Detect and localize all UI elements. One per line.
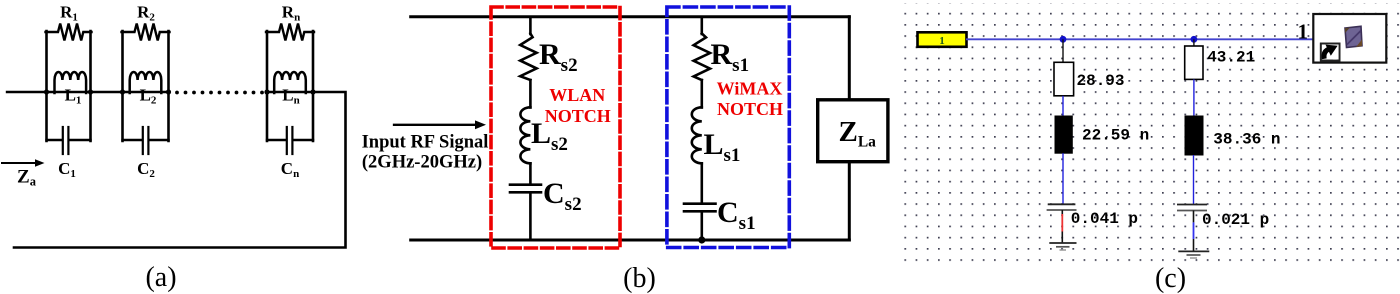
inductor Ls1 (vertical coil) (692, 107, 702, 163)
component icon box (top right) (1313, 14, 1386, 63)
svg-text:1: 1 (1298, 19, 1309, 43)
wire: right vertical from load bottom (848, 162, 851, 240)
node: branch A tap (1060, 36, 1067, 43)
wire: between tank1 and tank2 (91, 91, 123, 93)
resistor 43.21 (white rect) (1185, 46, 1203, 79)
wire: through tank 2 at mid level (123, 91, 169, 93)
wire: dotted continuation between tank2 and tank n (175, 91, 264, 95)
tank 1 left rail (45, 31, 48, 141)
svg-text:(c): (c) (1155, 263, 1186, 294)
node: junction dot tank-n left (264, 89, 269, 94)
capacitor C1 (bottom branch) (47, 127, 91, 154)
wire: right vertical to load top (848, 17, 851, 100)
resistor Rs2 (vertical zigzag) (520, 34, 536, 81)
label Za with arrow (2, 159, 45, 188)
curved-arrow icon (box bottom-left) (1321, 44, 1340, 61)
inductor L2 (middle branch coil) (130, 72, 162, 93)
node: junction dot tank2 right (166, 89, 171, 94)
tank 2 left rail (121, 31, 124, 141)
inductor L1 (middle branch coil) (55, 72, 87, 93)
wire: inductor to capacitor (1062, 153, 1064, 204)
svg-text:(a): (a) (145, 262, 176, 293)
svg-text:(b): (b) (623, 263, 656, 294)
svg-text:WLAN: WLAN (549, 85, 605, 105)
resistor 28.93 (white rect) (1054, 62, 1074, 96)
svg-text:NOTCH: NOTCH (545, 106, 611, 126)
resistor R2 (top branch zigzag) (122, 24, 170, 41)
wire: branch Rs2-Ls2-Cs2 top lead (529, 17, 532, 34)
wire: branch Rs1-Ls1-Cs1 top lead (700, 17, 703, 34)
wire: top bus (411, 15, 850, 18)
input arrow (394, 120, 486, 129)
wire: between Ls1 and Cs1 (700, 163, 703, 203)
wire: between Rs2 and Ls2 (529, 80, 532, 108)
wire: left input lead at mid level (7, 91, 47, 93)
node: junction dot tank2 left (120, 89, 125, 94)
svg-text:43.21: 43.21 (1207, 49, 1255, 67)
tank n left rail (266, 31, 269, 141)
inductor Ln (middle branch coil) (274, 72, 306, 93)
node: junction dot tank1 left (44, 89, 49, 94)
wire: main horizontal net (966, 38, 1313, 40)
wire: capacitor to ground (black/red/black) (1061, 210, 1063, 214)
wire: Cs1 to bottom bus (700, 211, 703, 240)
svg-text:22.59 n: 22.59 n (1082, 127, 1149, 145)
ground (branch B) (1178, 251, 1209, 258)
capacitor 0.041p plates (1047, 204, 1077, 210)
blue dashed WiMAX NOTCH box (667, 7, 789, 248)
inductor 38.36n (black rect) (1185, 116, 1203, 155)
node: junction dot tank1 right (88, 89, 93, 94)
resistor Rn (top branch zigzag) (266, 24, 314, 41)
capacitor Cs1 (684, 204, 716, 212)
wire: bottom bus (411, 239, 850, 242)
tank 2 right rail (167, 31, 170, 141)
wire: resistor to inductor B (1193, 79, 1195, 116)
svg-text:WiMAX: WiMAX (717, 79, 783, 99)
wire: node to resistor RB (1193, 39, 1195, 46)
node: branch B tap (1191, 36, 1198, 43)
resistor R1 (top branch zigzag) (46, 24, 92, 41)
red dashed WLAN NOTCH box (491, 7, 620, 248)
ground (branch A) (1049, 243, 1076, 250)
wire: through tank 1 at mid level (47, 91, 91, 93)
capacitor 0.021p plates (1177, 205, 1207, 211)
wire: through tank n at mid level (267, 91, 313, 93)
inductor Ls2 (vertical coil) (520, 107, 530, 163)
svg-text:NOTCH: NOTCH (717, 99, 783, 119)
wire: resistor to inductor (1062, 96, 1064, 116)
svg-text:(2GHz-20GHz): (2GHz-20GHz) (362, 153, 482, 173)
node: junction dot on bottom bus (698, 236, 705, 243)
svg-text:Input RF Signal: Input RF Signal (362, 133, 489, 153)
capacitor Cs2 (510, 185, 541, 193)
svg-text:38.36 n: 38.36 n (1213, 131, 1280, 149)
wire: between Ls2 and Cs2 (529, 163, 532, 184)
port 1 (yellow box) (918, 32, 967, 47)
wire: between Rs1 and Ls1 (700, 80, 703, 108)
wire: inductor to capacitor B (1193, 155, 1195, 205)
svg-text:0.021 p: 0.021 p (1202, 211, 1269, 229)
wire: capacitor to ground B (black/blue/black) (1193, 211, 1195, 223)
svg-text:28.93: 28.93 (1077, 72, 1125, 90)
purple parallelogram glyph (1345, 26, 1362, 47)
node: junction dot tank-n right (310, 89, 315, 94)
inductor 22.59n (black rect) (1055, 116, 1072, 153)
svg-text:1: 1 (939, 35, 945, 47)
wire: node to resistor RA (1062, 39, 1064, 62)
tank n right rail (312, 31, 315, 141)
capacitor Cn (bottom branch) (267, 127, 313, 154)
resistor Rs1 (vertical zigzag) (694, 34, 710, 81)
wire: output lead right then down and return along bottom (14, 92, 346, 248)
wire: Cs2 to bottom bus (529, 192, 532, 240)
svg-text:0.041 p: 0.041 p (1071, 210, 1138, 228)
capacitor C2 (bottom branch) (123, 127, 169, 154)
load box ZLa (818, 100, 888, 162)
tank 1 right rail (89, 31, 92, 141)
